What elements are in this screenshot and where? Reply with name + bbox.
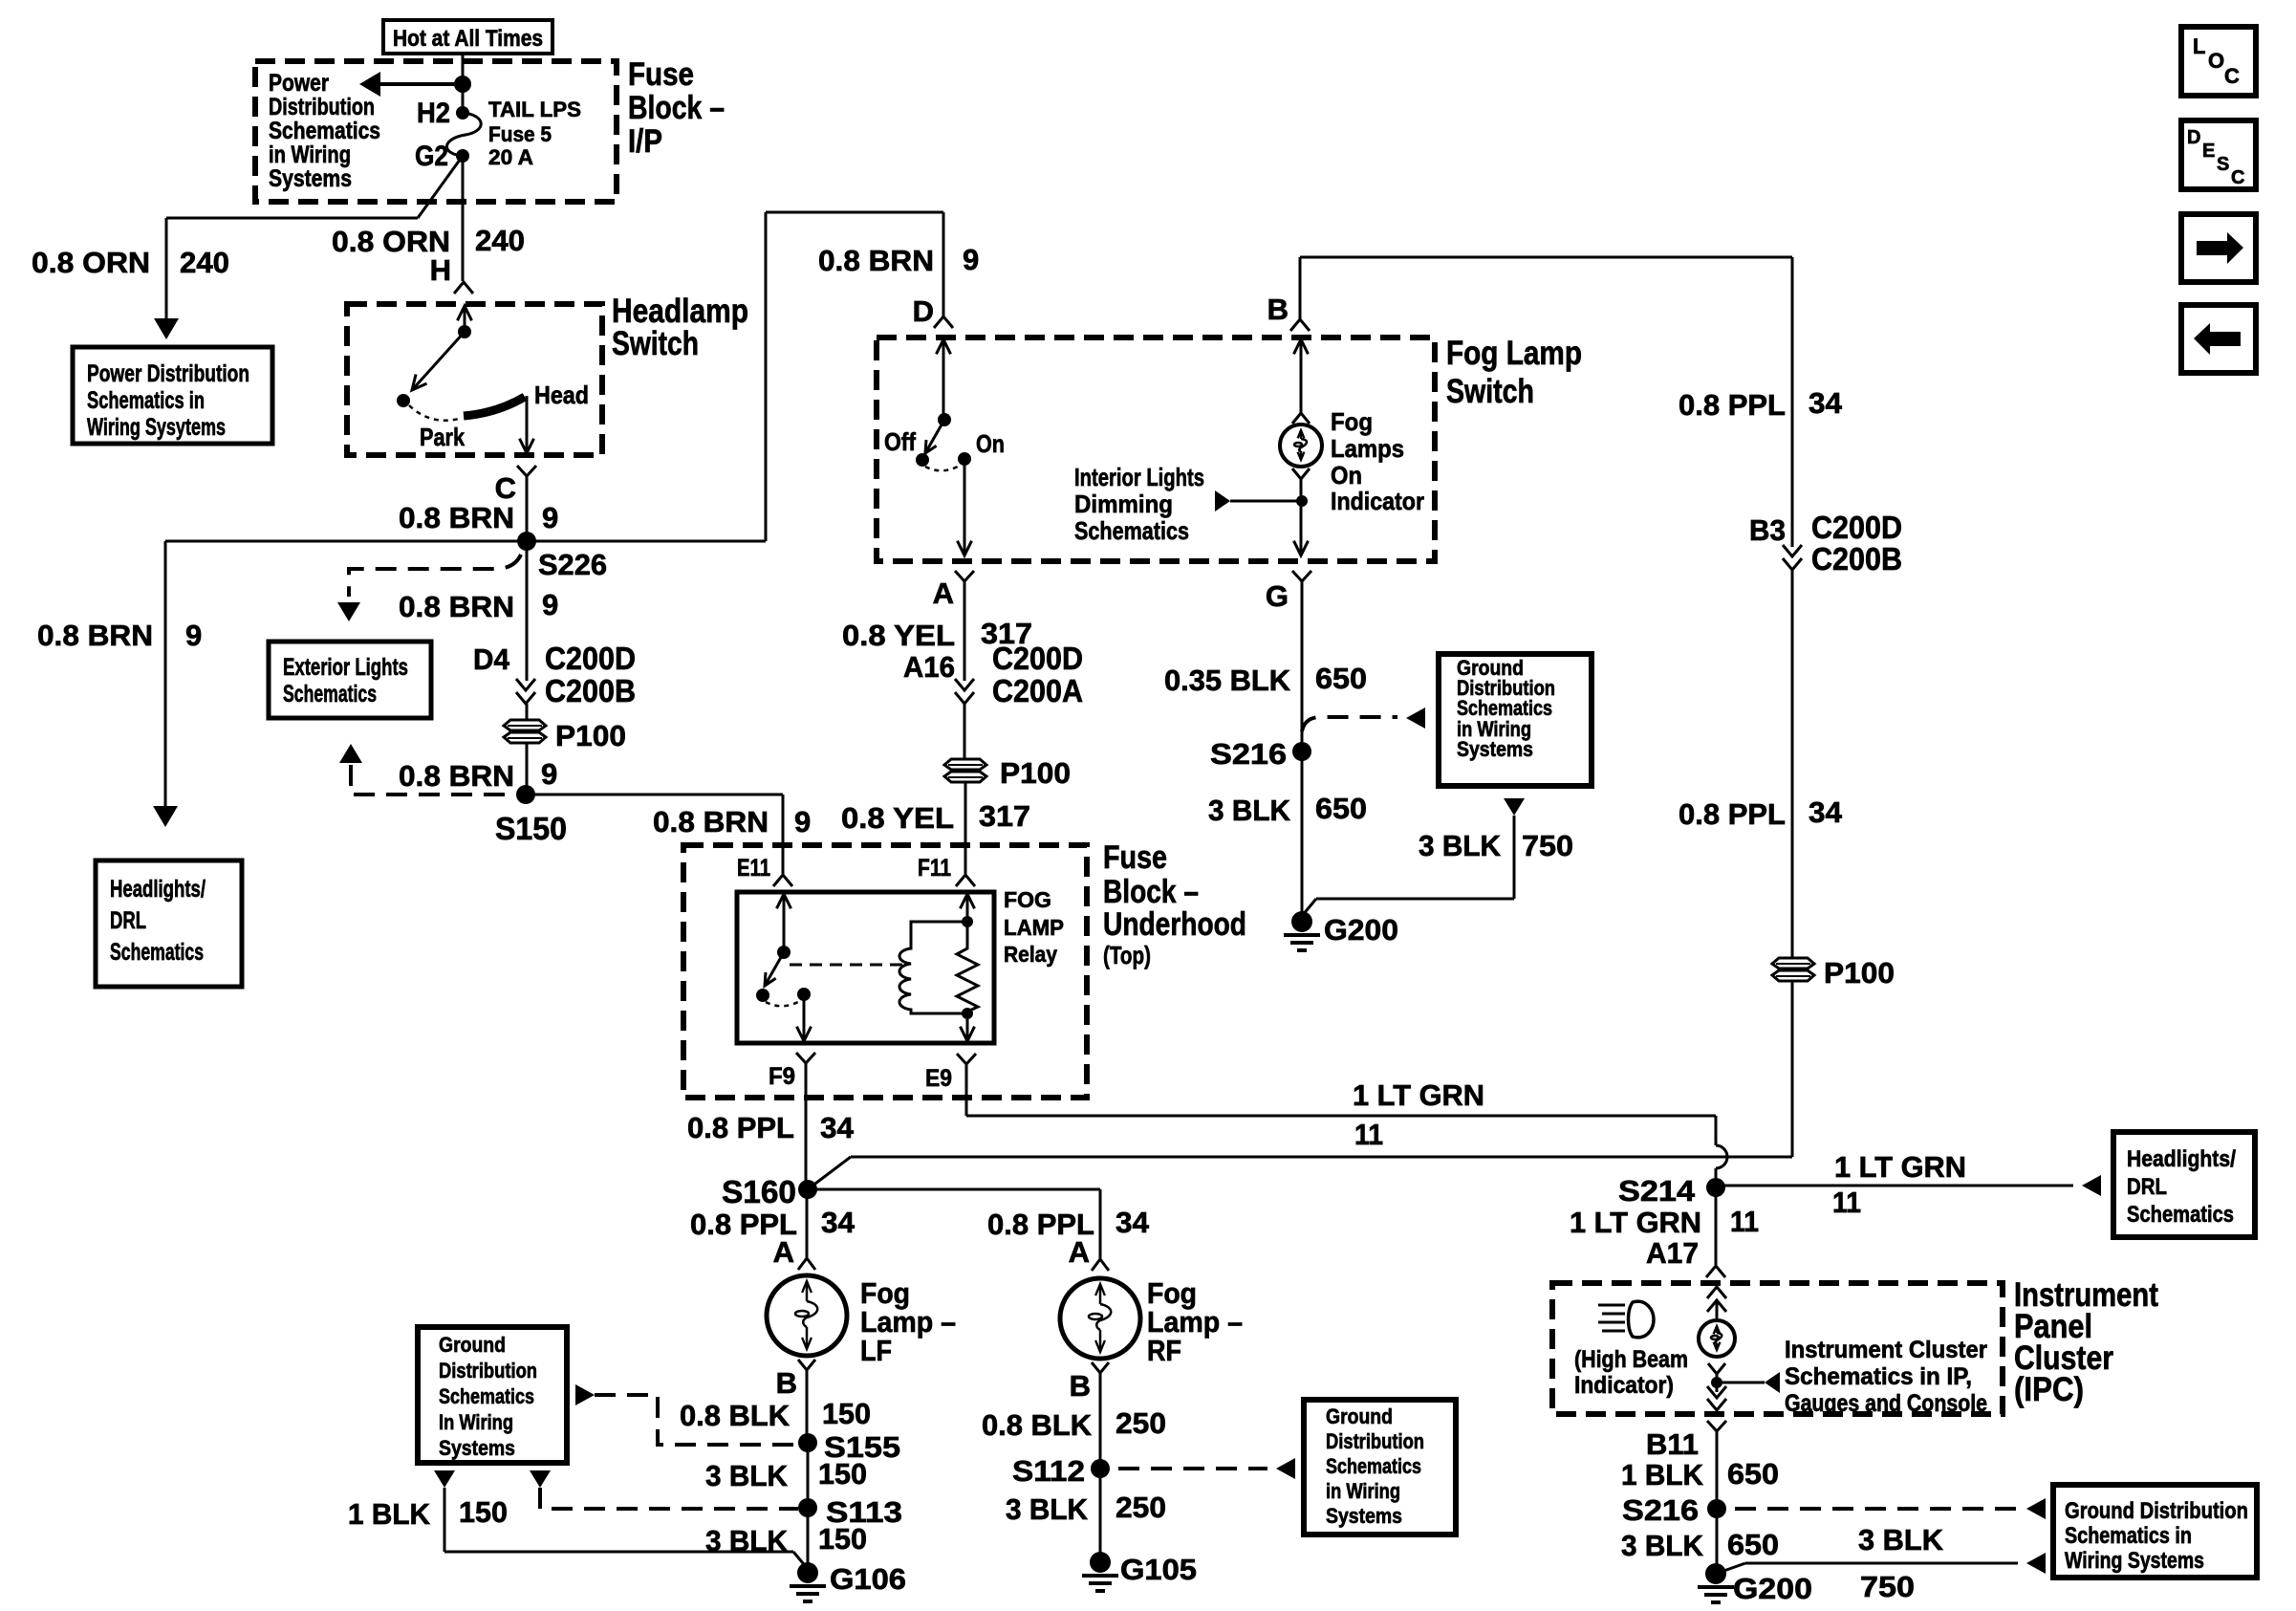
svg-text:G200: G200 <box>1733 1572 1812 1605</box>
connector into IPC (double chevron) <box>1707 1287 1726 1318</box>
svg-text:Instrument Cluster: Instrument Cluster <box>1785 1337 1987 1363</box>
wire E9 to S214 (1 LT GRN 11) <box>966 1064 1716 1116</box>
label Interior Lights Dimming Schematics <box>1074 463 1204 545</box>
wire G2 branch to left power distribution arrow <box>154 156 463 339</box>
svg-text:RF: RF <box>1147 1334 1181 1367</box>
svg-text:Power Distribution: Power Distribution <box>87 360 249 387</box>
label 3 BLK 750 <box>1419 829 1573 862</box>
reference box Exterior Lights Schematics <box>269 642 431 718</box>
wire P100 to F11 <box>964 782 967 874</box>
wire On contact to A <box>958 459 972 555</box>
label 0.8 BRN 9 (C output) <box>399 501 558 534</box>
svg-text:Wiring Systems: Wiring Systems <box>2065 1548 2204 1574</box>
svg-text:FOG: FOG <box>1004 887 1051 912</box>
svg-text:Hot at All Times: Hot at All Times <box>393 26 543 52</box>
svg-text:S216: S216 <box>1210 737 1287 771</box>
svg-text:3 BLK: 3 BLK <box>1621 1529 1704 1562</box>
svg-text:Fuse: Fuse <box>628 56 694 93</box>
wire lamp to G with junction <box>1292 468 1310 555</box>
svg-text:On: On <box>1331 461 1362 490</box>
svg-text:11: 11 <box>1354 1118 1383 1151</box>
reference arrow Interior Lights Dimming Schematics <box>1215 490 1302 512</box>
svg-text:Power: Power <box>269 70 329 97</box>
label Fog Lamp - RF <box>1147 1276 1243 1367</box>
svg-text:9: 9 <box>542 501 558 534</box>
svg-text:P100: P100 <box>1824 956 1895 990</box>
connector C200D C200A (A16) <box>903 641 1083 759</box>
node G2 <box>415 141 469 172</box>
svg-text:Schematics: Schematics <box>283 681 377 708</box>
wire B feed down right side <box>1791 257 1794 547</box>
label 0.8 BLK 250 <box>982 1406 1166 1442</box>
svg-text:C: C <box>2231 167 2244 188</box>
svg-text:Underhood: Underhood <box>1103 906 1246 943</box>
svg-text:Head: Head <box>534 381 589 409</box>
wire P100 to S150 <box>526 743 529 795</box>
reference box Ground Distribution Schematics in Wiring Systems (middle) <box>1439 654 1592 786</box>
svg-text:C200D: C200D <box>1811 510 1902 545</box>
label 0.8 BRN 9 (above S150) <box>399 757 557 793</box>
svg-text:Ground: Ground <box>1326 1404 1393 1428</box>
svg-text:0.8 YEL: 0.8 YEL <box>841 801 954 835</box>
fog switch travel dashed arc <box>925 466 960 470</box>
svg-text:Schematics: Schematics <box>2127 1202 2234 1228</box>
svg-text:250: 250 <box>1116 1406 1166 1440</box>
svg-text:0.8 ORN: 0.8 ORN <box>32 246 150 279</box>
dashed reference S112 to Ground Distribution box <box>1118 1458 1295 1479</box>
nav box left arrow <box>2181 305 2256 373</box>
svg-text:11: 11 <box>1730 1205 1759 1238</box>
label 0.8 PPL 34 (right top) <box>1679 386 1843 422</box>
svg-text:TAIL LPS: TAIL LPS <box>488 98 581 121</box>
terminal A17 <box>1646 1236 1725 1277</box>
label 3 BLK 250 <box>1006 1491 1166 1526</box>
node Park contact <box>397 394 465 451</box>
svg-text:Switch: Switch <box>1446 373 1534 410</box>
connector C200D C200B (B3) <box>1749 510 1902 958</box>
svg-text:20 A: 20 A <box>488 145 533 169</box>
label 0.8 ORN 240 (left branch) <box>32 246 229 279</box>
wire S160 right to RF lamp <box>808 1189 1100 1258</box>
wire G2 down to headlamp switch H <box>462 156 465 281</box>
label Fog Lamps On Indicator <box>1331 407 1424 515</box>
svg-text:E11: E11 <box>737 855 770 882</box>
label (High Beam Indicator) <box>1574 1346 1688 1399</box>
svg-text:Interior Lights: Interior Lights <box>1074 463 1204 491</box>
lamp Fog Lamp RF <box>1060 1278 1140 1359</box>
svg-text:LAMP: LAMP <box>1004 915 1064 940</box>
wire S160 to LF lamp <box>806 1189 809 1257</box>
svg-text:B11: B11 <box>1646 1427 1699 1461</box>
svg-text:Fuse: Fuse <box>1103 839 1167 876</box>
relay control dashed link <box>790 964 902 967</box>
terminal F9 <box>769 1053 815 1090</box>
label TAIL LPS Fuse 5 20 A <box>488 98 581 169</box>
label 3 BLK 150 (lower) <box>705 1522 867 1557</box>
node indicator junction <box>1296 495 1308 507</box>
svg-text:Block –: Block – <box>628 90 725 126</box>
svg-text:Schematics: Schematics <box>110 939 204 966</box>
svg-text:1 LT GRN: 1 LT GRN <box>1353 1078 1484 1112</box>
label Fog Lamp Switch <box>1446 335 1582 410</box>
label 1 LT GRN 11 (E9 run) <box>1353 1078 1484 1151</box>
fuse F5 TAIL LPS 20A <box>446 113 481 156</box>
svg-text:L: L <box>2193 34 2205 58</box>
label 0.8 PPL 34 (right mid) <box>1679 795 1843 831</box>
fuse block underhood dashed box <box>683 845 1087 1098</box>
node S112 <box>1012 1454 1110 1562</box>
svg-text:3 BLK: 3 BLK <box>1208 794 1291 827</box>
label 1 BLK 650 <box>1621 1457 1779 1491</box>
svg-text:C200B: C200B <box>1811 541 1902 577</box>
svg-text:150: 150 <box>818 1457 867 1491</box>
reference box Power Distribution Schematics in Wiring Sysytems <box>73 347 272 444</box>
wire 1 BLK 150 from box to G106 <box>434 1470 808 1569</box>
high beam indicator icon <box>1598 1301 1654 1338</box>
svg-text:650: 650 <box>1315 662 1367 695</box>
node S226 <box>517 532 607 581</box>
svg-text:650: 650 <box>1727 1457 1779 1491</box>
svg-text:A: A <box>773 1235 794 1269</box>
relay switch feed <box>777 894 791 959</box>
terminal B11 <box>1646 1421 1726 1509</box>
nav box DESC <box>2181 120 2256 189</box>
svg-text:Schematics in IP,: Schematics in IP, <box>1785 1363 1972 1390</box>
relay coil <box>899 922 967 1013</box>
svg-text:Indicator): Indicator) <box>1574 1372 1674 1399</box>
svg-text:(High Beam: (High Beam <box>1574 1346 1688 1373</box>
label Power Distribution Schematics in Wiring Systems (in-box) <box>269 70 380 192</box>
terminal B of fog lamp switch <box>1267 293 1310 331</box>
svg-text:Wiring Sysytems: Wiring Sysytems <box>87 414 226 441</box>
svg-text:750: 750 <box>1522 829 1573 862</box>
svg-text:34: 34 <box>1809 386 1843 420</box>
label 3 BLK 150 <box>705 1457 867 1492</box>
svg-text:1 BLK: 1 BLK <box>348 1497 431 1531</box>
svg-text:E9: E9 <box>925 1065 952 1092</box>
svg-text:LF: LF <box>860 1334 892 1367</box>
label 0.8 PPL 34 (RF) <box>987 1206 1150 1241</box>
svg-text:34: 34 <box>1116 1206 1150 1239</box>
svg-text:On: On <box>976 429 1005 458</box>
nav box right arrow <box>2181 214 2256 282</box>
svg-text:Block –: Block – <box>1103 874 1199 910</box>
svg-text:0.8 BLK: 0.8 BLK <box>982 1408 1093 1442</box>
svg-text:Off: Off <box>884 427 916 456</box>
svg-text:F11: F11 <box>918 855 951 882</box>
connector C200D C200B (D4) <box>473 641 636 720</box>
dashed reference from box to S113 <box>530 1470 798 1509</box>
svg-text:B3: B3 <box>1749 513 1786 547</box>
node S155 <box>798 1430 900 1508</box>
svg-text:F9: F9 <box>769 1063 795 1090</box>
svg-text:150: 150 <box>822 1397 871 1430</box>
svg-text:Schematics: Schematics <box>439 1384 534 1408</box>
svg-text:Switch: Switch <box>612 325 699 362</box>
svg-text:Exterior Lights: Exterior Lights <box>283 654 408 681</box>
node relay coil top <box>961 894 975 927</box>
node On contact <box>958 429 1005 466</box>
svg-text:Fog Lamp: Fog Lamp <box>1446 335 1582 372</box>
label 1 LT GRN 11 (A17) <box>1570 1205 1759 1239</box>
label 0.35 BLK 650 <box>1164 662 1367 697</box>
svg-text:3 BLK: 3 BLK <box>705 1459 789 1492</box>
svg-text:S160: S160 <box>722 1174 796 1209</box>
label 1 LT GRN 11 (S214 right) <box>1832 1150 1966 1219</box>
label 0.8 BRN 9 (D feed) <box>818 243 979 277</box>
svg-text:C200D: C200D <box>992 641 1083 676</box>
nav box LOC <box>2181 27 2256 96</box>
svg-text:G: G <box>1266 579 1289 613</box>
node junction at fuse feed <box>454 76 471 93</box>
svg-text:150: 150 <box>818 1522 867 1556</box>
svg-text:E: E <box>2202 141 2215 162</box>
fog switch feed from D <box>937 339 952 426</box>
terminal C of headlamp switch <box>495 466 536 541</box>
svg-text:3 BLK: 3 BLK <box>1858 1523 1944 1557</box>
wire S216 to G200 <box>1301 751 1304 922</box>
svg-text:0.8 BRN: 0.8 BRN <box>399 501 514 534</box>
svg-text:34: 34 <box>1809 795 1843 829</box>
svg-text:G200: G200 <box>1324 913 1398 947</box>
svg-text:S226: S226 <box>538 548 607 581</box>
svg-text:C200D: C200D <box>545 641 636 676</box>
node relay NO contact <box>797 988 811 1001</box>
svg-text:S214: S214 <box>1618 1174 1696 1208</box>
svg-text:150: 150 <box>459 1495 508 1529</box>
terminal B of LF lamp <box>776 1360 815 1443</box>
svg-text:A: A <box>933 577 954 610</box>
node S216 (fog switch ground) <box>1210 737 1311 771</box>
terminal F11 <box>918 855 975 886</box>
indicator wire B down to lamp <box>1292 339 1310 424</box>
svg-text:H: H <box>430 253 451 287</box>
wire S226 down to S150 <box>526 541 529 681</box>
label 0.8 ORN 240 (fuse output) <box>332 224 525 258</box>
wire 3 BLK 750 from Ground Distribution box to G200 <box>1302 798 1525 916</box>
terminal E9 <box>925 1054 976 1092</box>
svg-text:I/P: I/P <box>628 123 662 160</box>
dashed reference S216 to Ground Distribution box (right) <box>1735 1498 2046 1519</box>
label 0.8 BRN 9 (below S226) <box>399 588 558 623</box>
svg-text:317: 317 <box>979 799 1030 833</box>
label Fuse Block - I/P <box>628 56 725 160</box>
wire Head contact to C terminal <box>520 396 534 453</box>
label 0.8 YEL 317 <box>842 617 1032 652</box>
svg-text:9: 9 <box>541 757 557 791</box>
svg-text:G105: G105 <box>1120 1553 1197 1586</box>
dashed reference: S150 to Exterior Lights Schematics <box>339 744 514 795</box>
svg-text:0.8 PPL: 0.8 PPL <box>687 1111 794 1144</box>
svg-text:Schematics: Schematics <box>1326 1454 1421 1478</box>
svg-text:650: 650 <box>1727 1528 1779 1561</box>
relay resistor <box>957 922 978 1013</box>
svg-text:0.8 BRN: 0.8 BRN <box>399 759 514 793</box>
svg-text:A17: A17 <box>1646 1236 1699 1270</box>
pass-through grommet P100 (left) <box>504 719 626 752</box>
svg-text:in Wiring: in Wiring <box>1326 1479 1400 1503</box>
label Instrument Cluster Schematics in IP Gauges and Console <box>1785 1337 1987 1417</box>
relay FOG LAMP box <box>737 892 994 1043</box>
fog lamps on indicator feed B <box>1300 257 1792 318</box>
svg-text:O: O <box>2208 49 2224 73</box>
svg-text:Schematics: Schematics <box>269 118 380 144</box>
svg-text:G2: G2 <box>415 141 448 172</box>
fog switch blade <box>925 420 944 453</box>
svg-text:Schematics in: Schematics in <box>2065 1523 2192 1549</box>
connector out of IPC (double chevron) <box>1707 1386 1726 1410</box>
svg-text:0.8 BRN: 0.8 BRN <box>37 619 153 652</box>
svg-text:Headlights/: Headlights/ <box>110 876 206 903</box>
label 3 BLK 750 (right) <box>1858 1523 1944 1603</box>
node Off contact <box>884 427 929 467</box>
ground G200 (IPC) <box>1698 1563 1812 1605</box>
wire P100 down and left to S160 <box>808 981 1792 1189</box>
lamp High Beam Indicator <box>1699 1320 1735 1357</box>
wire F9 to S160 <box>805 1063 808 1189</box>
svg-text:S: S <box>2217 154 2229 175</box>
svg-text:9: 9 <box>963 243 979 276</box>
svg-text:0.8 BRN: 0.8 BRN <box>653 805 769 838</box>
svg-text:G106: G106 <box>830 1562 906 1596</box>
svg-text:A: A <box>1069 1235 1090 1269</box>
wire S226 left to headlights DRL reference <box>153 541 527 827</box>
svg-text:0.8 BRN: 0.8 BRN <box>399 590 514 623</box>
svg-text:Systems: Systems <box>439 1436 515 1460</box>
pass-through grommet P100 (center) <box>944 756 1071 790</box>
wire from Hot at All Times into fuse block <box>462 54 465 113</box>
svg-text:Park: Park <box>420 423 465 451</box>
svg-text:0.8 PPL: 0.8 PPL <box>1679 797 1786 831</box>
svg-text:Gauges and Console: Gauges and Console <box>1785 1390 1987 1417</box>
terminal A of fog lamp switch <box>933 571 974 681</box>
svg-text:DRL: DRL <box>2127 1174 2167 1200</box>
label Instrument Panel Cluster (IPC) <box>2014 1276 2158 1408</box>
svg-text:750: 750 <box>1860 1570 1915 1603</box>
terminal A of LF lamp <box>773 1235 815 1270</box>
label 1 BLK 150 <box>348 1495 508 1531</box>
svg-text:P100: P100 <box>1000 756 1071 790</box>
label 0.8 PPL 34 (LF) <box>690 1206 856 1241</box>
headlamp switch blade <box>412 332 465 390</box>
node relay coil bottom <box>961 1008 975 1041</box>
svg-text:B: B <box>1070 1369 1091 1403</box>
terminal H of headlamp switch <box>430 253 473 294</box>
svg-text:1 LT GRN: 1 LT GRN <box>1570 1206 1701 1239</box>
label 0.8 BLK 150 <box>680 1397 871 1432</box>
node relay NC contact <box>756 989 769 1002</box>
svg-text:Systems: Systems <box>1326 1504 1402 1528</box>
node H2 <box>417 98 469 129</box>
svg-text:S150: S150 <box>495 811 567 846</box>
wire S226 right up and over to fog lamp switch D <box>527 212 943 541</box>
svg-text:0.8 PPL: 0.8 PPL <box>1679 388 1786 422</box>
svg-text:Distribution: Distribution <box>269 94 375 120</box>
wire arrow to Power Distribution Schematics reference <box>359 72 463 97</box>
wire 3 BLK 750 G200 to Ground Distribution box <box>1716 1553 2046 1574</box>
switch travel dashed arc <box>409 405 459 421</box>
terminal A of RF lamp <box>1069 1235 1109 1271</box>
label Fuse Block - Underhood (Top) <box>1103 839 1246 969</box>
svg-text:S112: S112 <box>1012 1454 1085 1488</box>
wire S214 to Headlights DRL reference <box>1716 1175 2101 1196</box>
svg-text:D: D <box>913 294 934 328</box>
svg-text:C: C <box>2224 64 2240 88</box>
svg-text:B: B <box>1267 293 1289 326</box>
svg-text:Systems: Systems <box>269 165 352 192</box>
svg-text:250: 250 <box>1116 1491 1166 1524</box>
reference box Ground Distribution Schematics in Wiring Systems (bottom center) <box>1304 1400 1456 1535</box>
lamp Fog Lamps On Indicator <box>1280 425 1322 467</box>
reference box Headlights DRL Schematics <box>96 860 242 987</box>
svg-text:C200B: C200B <box>545 673 636 708</box>
label Headlamp Switch <box>612 293 748 362</box>
label FOG LAMP Relay <box>1004 887 1064 967</box>
label 0.8 BRN 9 (E11 feed) <box>653 805 811 838</box>
svg-text:C200A: C200A <box>992 673 1083 708</box>
svg-text:0.8 YEL: 0.8 YEL <box>842 619 955 652</box>
svg-text:240: 240 <box>475 224 525 257</box>
svg-text:650: 650 <box>1315 792 1367 825</box>
svg-text:in Wiring: in Wiring <box>269 142 351 168</box>
svg-text:3 BLK: 3 BLK <box>1006 1492 1089 1526</box>
ground G106 <box>790 1562 906 1601</box>
lamp Fog Lamp LF <box>767 1275 847 1356</box>
wire relay NO contact to F9 <box>797 994 812 1041</box>
terminal D of fog lamp switch <box>913 294 953 328</box>
svg-text:B: B <box>776 1366 797 1400</box>
svg-text:Systems: Systems <box>1457 737 1533 761</box>
svg-text:0.8 BLK: 0.8 BLK <box>680 1399 791 1432</box>
svg-text:Distribution: Distribution <box>439 1359 537 1382</box>
terminal E11 <box>737 855 792 886</box>
svg-text:H2: H2 <box>417 98 450 129</box>
svg-text:0.35 BLK: 0.35 BLK <box>1164 664 1291 697</box>
svg-text:Indicator: Indicator <box>1331 487 1424 515</box>
dashed reference: S226 to Exterior Lights Schematics <box>337 555 521 621</box>
svg-text:240: 240 <box>180 246 229 279</box>
svg-text:Schematics in: Schematics in <box>87 387 205 414</box>
relay blade <box>765 952 784 986</box>
node S214 <box>1618 1174 1725 1208</box>
relay travel dashed arc <box>766 1001 800 1006</box>
reference box Ground Distribution Schematics in Wiring Systems (bottom right) <box>2053 1485 2257 1578</box>
wire S214 down to IPC A17 <box>1715 1187 1718 1265</box>
svg-text:Ground Distribution: Ground Distribution <box>2065 1498 2248 1524</box>
reference arrow Instrument Cluster Schematics <box>1717 1372 1780 1393</box>
label 0.8 BRN 9 (left branch) <box>37 619 202 652</box>
reference box Headlights DRL Schematics <box>2113 1132 2255 1237</box>
wire hop and node S214 <box>1716 1116 1727 1187</box>
fuse block I/P dashed box <box>255 61 617 202</box>
node S150 <box>495 785 567 846</box>
svg-text:3 BLK: 3 BLK <box>1419 829 1502 862</box>
label 0.8 YEL 317 (below P100) <box>841 799 1030 835</box>
svg-text:Lamps: Lamps <box>1331 434 1404 463</box>
svg-text:(IPC): (IPC) <box>2014 1371 2084 1408</box>
svg-text:D: D <box>2187 127 2200 148</box>
svg-text:Headlights/: Headlights/ <box>2127 1146 2236 1172</box>
node S216 (IPC ground) <box>1622 1493 1726 1574</box>
svg-text:1 BLK: 1 BLK <box>1621 1458 1704 1491</box>
ground G200 (fog switch) <box>1284 911 1398 950</box>
terminal G of fog lamp switch <box>1266 571 1311 751</box>
svg-text:11: 11 <box>1832 1186 1861 1219</box>
node S160 <box>722 1174 817 1209</box>
svg-text:Ground: Ground <box>439 1333 506 1357</box>
ground G105 <box>1082 1552 1197 1591</box>
label 0.8 PPL 34 (F9 out) <box>687 1111 855 1144</box>
